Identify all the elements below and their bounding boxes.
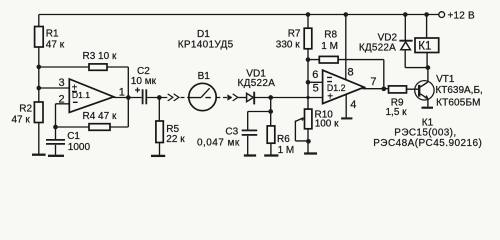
svg-text:1 М: 1 М — [321, 41, 338, 52]
svg-text:R4 47 к: R4 47 к — [83, 111, 117, 122]
svg-text:+: + — [327, 92, 333, 103]
svg-text:1000: 1000 — [68, 142, 91, 153]
svg-text:7: 7 — [370, 76, 376, 88]
svg-text:R6: R6 — [277, 134, 290, 145]
svg-text:1 М: 1 М — [278, 145, 295, 156]
svg-text:1: 1 — [119, 86, 125, 98]
svg-text:РЭС15(003),: РЭС15(003), — [394, 128, 456, 139]
svg-text:1,5 к: 1,5 к — [386, 107, 408, 118]
svg-text:VT1: VT1 — [436, 74, 455, 85]
svg-text:R8: R8 — [324, 29, 337, 40]
svg-text:R7: R7 — [288, 29, 301, 40]
svg-text:К1: К1 — [418, 40, 431, 52]
svg-text:0,047 мк: 0,047 мк — [197, 137, 240, 148]
svg-text:330 к: 330 к — [276, 39, 300, 50]
svg-text:3: 3 — [59, 77, 65, 89]
svg-text:C1: C1 — [67, 131, 80, 142]
svg-text:8: 8 — [348, 66, 354, 78]
svg-text:10 мк: 10 мк — [131, 76, 157, 87]
svg-text:5: 5 — [313, 83, 319, 95]
svg-text:22 к: 22 к — [166, 134, 185, 145]
svg-text:КД522А: КД522А — [359, 42, 396, 53]
svg-text:КТ639А,Б,: КТ639А,Б, — [435, 85, 482, 96]
svg-text:КТ605БМ: КТ605БМ — [436, 98, 481, 109]
svg-text:4: 4 — [350, 99, 356, 111]
svg-text:47 к: 47 к — [12, 114, 31, 125]
svg-text:R3 10 к: R3 10 к — [83, 51, 117, 62]
svg-text:6: 6 — [312, 69, 318, 81]
svg-text:В1: В1 — [198, 71, 211, 82]
svg-text:R2: R2 — [19, 104, 32, 115]
svg-text:C3: C3 — [225, 127, 238, 138]
svg-text:D1: D1 — [197, 29, 210, 40]
svg-text:РЭС48А(РС45.90216): РЭС48А(РС45.90216) — [373, 138, 482, 149]
svg-text:R1: R1 — [46, 29, 59, 40]
svg-text:100 к: 100 к — [315, 118, 339, 129]
svg-text:C2: C2 — [137, 66, 150, 77]
svg-text:47 к: 47 к — [46, 40, 65, 51]
svg-text:2: 2 — [59, 93, 65, 105]
svg-text:КР1401УД5: КР1401УД5 — [178, 40, 234, 51]
svg-text:КД522А: КД522А — [238, 78, 276, 89]
svg-text:+12 В: +12 В — [448, 11, 476, 22]
